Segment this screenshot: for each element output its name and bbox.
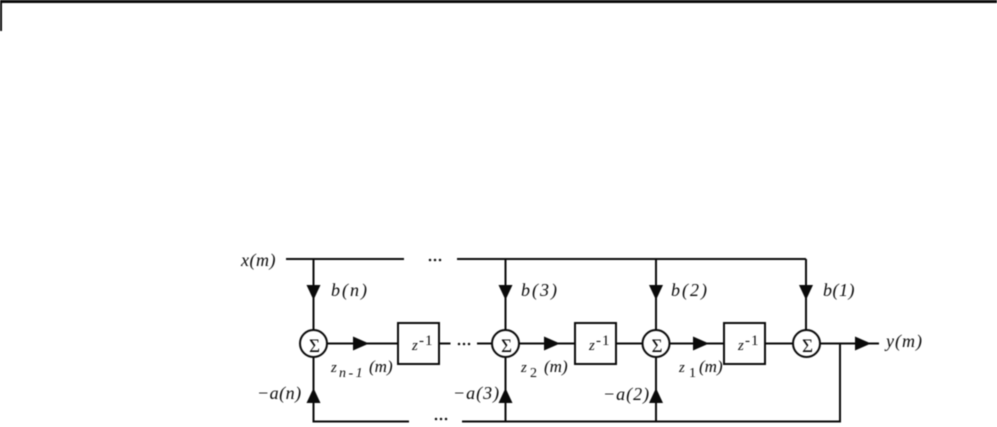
svg-text:x(m): x(m) (240, 250, 276, 271)
arrowhead up -a(2) (649, 388, 663, 403)
svg-text:z: z (330, 360, 337, 376)
svg-text:b(3): b(3) (521, 280, 559, 301)
ellipsis bottom rail (435, 418, 438, 421)
wire: bottom feedback rail right segment (462, 421, 840, 423)
summer S1 (300, 330, 327, 357)
svg-text:−a(3): −a(3) (453, 383, 500, 404)
arrowhead right into delay 3 (693, 337, 709, 351)
arrowhead down b(3) (499, 285, 513, 300)
svg-text:Σ: Σ (802, 336, 813, 357)
svg-text:1: 1 (689, 366, 696, 381)
wire: top rail right segment (457, 258, 806, 260)
arrowhead right into delay 1 (353, 337, 369, 351)
top page border line (0, 0, 997, 3)
arrowhead down b(2) (649, 285, 663, 300)
ellipsis top rail (429, 259, 432, 262)
wire: summer 4 to output y(m) (820, 343, 879, 345)
ellipsis middle row (458, 343, 461, 346)
wire: delay box 1 output stub (439, 343, 451, 345)
wire: drop from top rail to summer 2 (505, 259, 507, 331)
svg-text:Σ: Σ (309, 336, 320, 357)
delay box z^-1 (2) (575, 323, 616, 364)
wire: feedback riser to summer 3 (655, 357, 657, 423)
wire: drop from top rail to summer 1 (313, 259, 315, 331)
arrowhead down b(1) (799, 285, 813, 300)
wire: drop from top rail to summer 4 (805, 259, 807, 331)
svg-text:z: z (520, 360, 527, 376)
svg-text:y(m): y(m) (884, 331, 923, 352)
svg-text:b(1): b(1) (823, 280, 855, 301)
wire: delay box 2 to summer 3 (616, 343, 643, 345)
svg-text:−a(n): −a(n) (257, 383, 302, 404)
wire: summer 1 to delay box 1 (327, 343, 398, 345)
svg-text:b(n): b(n) (331, 280, 369, 301)
summer S2 (492, 330, 519, 357)
wire: top rail left segment from x(m) (286, 258, 404, 260)
arrowhead right output (855, 337, 871, 351)
svg-text:2: 2 (530, 366, 537, 381)
delay box z^-1 (1) (398, 323, 439, 364)
delay box z^-1 (3) (724, 323, 765, 364)
svg-text:(m): (m) (369, 357, 393, 376)
arrowhead right into delay 2 (544, 337, 560, 351)
svg-text:Σ: Σ (651, 336, 662, 357)
svg-text:z: z (678, 360, 685, 376)
arrowhead up -a(3) (499, 388, 513, 403)
svg-text:-1: -1 (596, 333, 611, 349)
summer S4 (793, 330, 820, 357)
svg-text:n-1: n-1 (339, 366, 365, 381)
svg-text:−a(2): −a(2) (603, 384, 650, 405)
svg-text:(m): (m) (699, 357, 723, 376)
arrowhead up -a(n) (307, 388, 321, 403)
wire: summer 3 to delay box 3 (670, 343, 725, 345)
wire: feedback riser to summer 1 (313, 357, 315, 423)
svg-text:z: z (411, 338, 418, 354)
svg-text:z: z (737, 338, 744, 354)
wire: stub into summer 2 (477, 343, 492, 345)
svg-text:-1: -1 (419, 333, 434, 349)
wire: drop from top rail to summer 3 (655, 259, 657, 331)
svg-text:(m): (m) (544, 357, 568, 376)
svg-text:-1: -1 (745, 333, 760, 349)
wire: feedback riser to summer 2 (505, 357, 507, 423)
left page border tick (0, 0, 2, 31)
wire: summer 2 to delay box 2 (519, 343, 575, 345)
wire: output tap down to feedback rail (839, 344, 841, 423)
svg-text:Σ: Σ (501, 336, 512, 357)
summer S3 (643, 330, 670, 357)
wire: bottom feedback rail left segment (314, 421, 410, 423)
svg-text:b(2): b(2) (671, 280, 709, 301)
arrowhead down b(n) (307, 285, 321, 300)
wire: delay box 3 to summer 4 (765, 343, 793, 345)
svg-text:z: z (588, 338, 595, 354)
